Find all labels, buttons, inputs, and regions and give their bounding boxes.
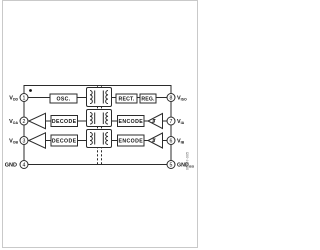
page background [0,0,200,250]
wire DECODE A to transformer T2 [78,120,87,122]
wire ENCODE B to schmitt B [144,140,148,142]
pin 7 [167,117,175,125]
isolation barrier dashed line right [101,86,103,164]
decoder DECODE A [51,116,78,127]
wire buffer A to DECODE A [46,120,52,122]
pin 3 [20,137,28,145]
transformer T1 [87,88,112,107]
buffer B output triangle [29,133,46,148]
transformer T3 [87,130,112,148]
svg-text:REG.: REG. [141,96,155,102]
wire schmitt B to pin 6 [163,140,168,142]
svg-text:6: 6 [170,138,173,144]
wire DECODE B to transformer T3 [78,140,87,142]
svg-text:RECT.: RECT. [119,96,135,102]
svg-text:4: 4 [23,162,26,168]
pin 1 [20,94,28,102]
svg-text:OSC.: OSC. [57,96,71,102]
wire ENCODE A to schmitt A [144,120,148,122]
regulator REG. [140,94,156,103]
svg-text:1: 1 [23,95,26,101]
schmitt input buffer B [148,133,163,148]
pin 4 [20,161,28,169]
pin 5 [167,161,175,169]
wire VDD to OSC [28,97,50,99]
isolation barrier dashed line left [97,86,99,164]
buffer A output triangle [29,113,46,128]
svg-text:ENCODE: ENCODE [118,138,143,144]
wire T1 to RECT [112,97,117,99]
svg-text:7: 7 [170,119,173,125]
wire buffer B to DECODE B [46,140,52,142]
svg-text:3: 3 [23,138,26,144]
wire OSC to transformer T1 [77,97,87,99]
pin 6 [167,137,175,145]
encoder ENCODE A [118,116,145,127]
pin 8 [167,94,175,102]
svg-text:DECODE: DECODE [52,138,77,144]
wire REG to pin 8 [156,97,167,99]
pin 2 [20,117,28,125]
transformer T2 [87,110,112,127]
svg-text:8: 8 [170,95,173,101]
oscillator OSC. [50,94,77,103]
encoder ENCODE B [118,135,145,146]
wire T3 to ENCODE B [112,140,118,142]
package outline U1 [24,86,171,165]
wire T2 to ENCODE A [112,120,118,122]
pin 1 indicator dot [29,89,32,92]
wire schmitt A to pin 7 [163,120,168,122]
svg-text:DECODE: DECODE [52,119,77,125]
figure frame [3,1,198,248]
wire RECT to REG [137,97,140,99]
svg-text:2: 2 [23,119,26,125]
svg-text:5: 5 [170,162,173,168]
svg-text:06557-005: 06557-005 [186,152,190,170]
svg-text:ENCODE: ENCODE [118,119,143,125]
rectifier RECT. [116,94,137,103]
svg-text:GND: GND [5,163,17,169]
schmitt input buffer A [148,114,163,129]
decoder DECODE B [51,135,78,146]
